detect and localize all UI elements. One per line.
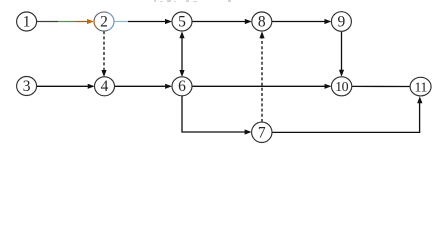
wire edge 10->11 xyxy=(352,85,410,87)
svg-text:9: 9 xyxy=(338,13,346,30)
wire edge 5->8 xyxy=(192,19,252,24)
cropped text remnants top xyxy=(154,0,231,2)
wire edge 8->9 xyxy=(272,19,332,24)
wire edge 6->7 xyxy=(182,96,252,135)
svg-text:2: 2 xyxy=(100,13,108,30)
svg-text:1: 1 xyxy=(23,13,31,30)
wire edge 2->5 xyxy=(114,19,172,24)
wire edge 7->11 xyxy=(272,96,422,132)
wire edge 3->4 xyxy=(37,84,95,89)
node 1 xyxy=(17,12,37,31)
node 11 xyxy=(410,77,431,96)
svg-text:11: 11 xyxy=(414,80,427,95)
svg-text:4: 4 xyxy=(101,78,109,95)
node 9 xyxy=(331,12,351,32)
wire dashed edge 7->8 xyxy=(259,31,264,122)
node 6 xyxy=(172,77,192,96)
svg-text:10: 10 xyxy=(335,80,349,95)
node 10 xyxy=(331,77,351,96)
node 8 xyxy=(252,12,272,31)
wire double arrow edge 5-6 xyxy=(179,31,184,77)
svg-text:8: 8 xyxy=(258,13,266,30)
node 4 xyxy=(95,77,115,96)
wire edge 1->2 xyxy=(37,19,95,24)
svg-text:7: 7 xyxy=(258,124,266,141)
wire edge 4->6 xyxy=(115,84,173,89)
wire edge 6->10 xyxy=(192,84,332,89)
node 7 xyxy=(252,122,272,142)
node 5 xyxy=(172,12,192,31)
node 3 xyxy=(17,77,37,96)
wire dashed edge 2->4 xyxy=(101,31,106,77)
svg-text:6: 6 xyxy=(178,78,186,95)
node 2 xyxy=(94,12,114,31)
svg-text:3: 3 xyxy=(23,78,31,95)
svg-text:5: 5 xyxy=(178,13,186,30)
wire edge 9->10 xyxy=(339,32,344,77)
